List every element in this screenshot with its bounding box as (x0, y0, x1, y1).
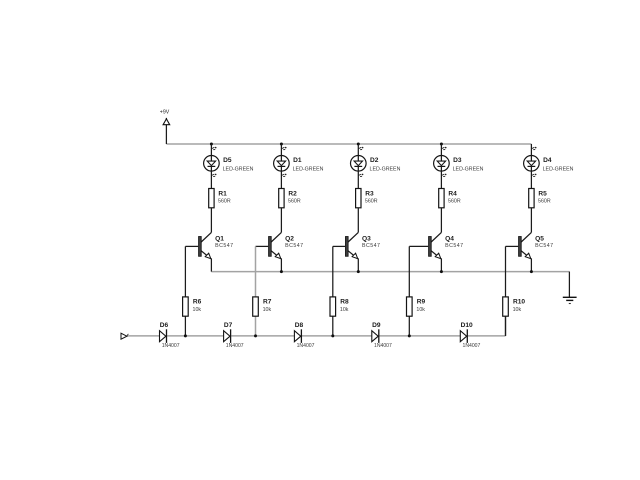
transistor Q1 (199, 232, 212, 258)
svg-text:560R: 560R (538, 198, 551, 204)
pin mark LED D2 top (359, 147, 364, 150)
LED D4 (524, 156, 540, 172)
svg-text:LED-GREEN: LED-GREEN (453, 166, 484, 172)
diode D7 (224, 329, 231, 343)
svg-text:+9V: +9V (160, 110, 170, 116)
svg-text:D3: D3 (453, 157, 462, 164)
diode D10 (460, 329, 467, 343)
wire resistor R2 to transistor Q2 collector (280, 208, 282, 233)
pin mark LED D1 bottom (282, 174, 287, 177)
input terminal (121, 333, 128, 339)
pin mark LED D3 top (442, 147, 447, 150)
svg-text:BC547: BC547 (215, 243, 233, 249)
wire base column R10 (505, 246, 507, 336)
node diode row junction 3 (331, 334, 334, 337)
node diode row junction 4 (408, 334, 411, 337)
wire LED D5 anode (210, 144, 212, 161)
svg-text:D1: D1 (293, 157, 302, 164)
wire base column R6 (184, 246, 186, 336)
node diode row junction 1 (184, 334, 187, 337)
wire LED D4 anode (530, 144, 532, 161)
svg-text:1N4007: 1N4007 (297, 343, 315, 349)
pin mark LED D5 bottom (212, 174, 217, 177)
svg-text:10k: 10k (193, 307, 202, 313)
svg-text:LED-GREEN: LED-GREEN (543, 166, 574, 172)
power +9V (163, 118, 170, 144)
svg-text:560R: 560R (218, 198, 231, 204)
svg-text:BC547: BC547 (445, 243, 463, 249)
pin mark LED D3 bottom (442, 174, 447, 177)
svg-text:R1: R1 (218, 191, 227, 198)
resistor R3 (356, 189, 361, 208)
resistor R5 (529, 189, 534, 208)
node emitter rail junction 3 (357, 270, 360, 273)
resistor R4 (439, 189, 444, 208)
svg-text:560R: 560R (288, 198, 301, 204)
wire LED D5 cathode to resistor R1 (210, 166, 212, 188)
svg-text:10k: 10k (416, 307, 425, 313)
svg-text:D6: D6 (160, 322, 169, 329)
wire diode row segment 5 (379, 335, 460, 337)
transistor Q3 (345, 232, 358, 258)
pin mark LED D4 bottom (532, 174, 537, 177)
wire resistor R4 to transistor Q4 collector (440, 208, 442, 233)
wire resistor R5 to transistor Q5 collector (530, 208, 532, 233)
wire diode row segment 6 (468, 335, 506, 337)
wire resistor R1 to transistor Q1 collector (210, 208, 212, 233)
svg-text:1N4007: 1N4007 (226, 343, 244, 349)
pin mark LED D2 bottom (359, 174, 364, 177)
node top rail junction 2 (280, 143, 283, 146)
wire LED D3 anode (440, 144, 442, 161)
wire resistor R3 to transistor Q3 collector (357, 208, 359, 233)
ground (563, 272, 577, 304)
node emitter rail junction 2 (280, 270, 283, 273)
pin mark LED D5 top (212, 147, 217, 150)
wire LED D2 cathode to resistor R3 (357, 166, 359, 188)
wire LED D4 cathode to resistor R5 (530, 166, 532, 188)
LED D3 (434, 156, 450, 172)
svg-text:R8: R8 (340, 299, 349, 306)
transistor Q2 (269, 232, 282, 258)
wire top power rail (166, 143, 531, 145)
wire base column R9 (408, 246, 410, 336)
wire LED D1 cathode to resistor R2 (280, 166, 282, 188)
wire base column R7 (255, 246, 257, 336)
wire LED D1 anode (280, 144, 282, 161)
wire diode row segment 4 (302, 335, 372, 337)
transistor Q4 (429, 232, 442, 258)
LED D1 (274, 156, 290, 172)
svg-text:560R: 560R (365, 198, 378, 204)
svg-text:R5: R5 (538, 191, 547, 198)
svg-text:Q4: Q4 (445, 236, 454, 243)
resistor R2 (279, 189, 284, 208)
node top rail junction 4 (440, 143, 443, 146)
svg-text:Q3: Q3 (362, 236, 371, 243)
svg-text:R9: R9 (417, 299, 426, 306)
wire LED D3 cathode to resistor R4 (440, 166, 442, 188)
resistor R10 (503, 297, 509, 316)
resistor R6 (183, 297, 189, 316)
pin mark LED D4 top (532, 147, 537, 150)
LED D2 (351, 156, 367, 172)
wire transistor Q5 base (506, 245, 519, 247)
LED D5 (204, 156, 220, 172)
resistor R1 (209, 189, 214, 208)
svg-text:10k: 10k (513, 307, 522, 313)
svg-text:D4: D4 (543, 157, 552, 164)
svg-text:1N4007: 1N4007 (162, 343, 180, 349)
wire transistor Q4 base (409, 245, 428, 247)
svg-text:Q2: Q2 (285, 236, 294, 243)
node emitter rail junction 4 (440, 270, 443, 273)
diode D8 (294, 329, 301, 343)
wire transistor Q1 emitter (210, 258, 212, 271)
svg-text:BC547: BC547 (362, 243, 380, 249)
wire transistor Q2 base (256, 245, 269, 247)
wire transistor Q2 emitter (280, 258, 282, 271)
svg-text:D9: D9 (372, 322, 381, 329)
wire emitter rail to ground (211, 271, 569, 273)
svg-text:1N4007: 1N4007 (374, 343, 392, 349)
svg-text:D7: D7 (224, 322, 233, 329)
wire transistor Q4 emitter (440, 258, 442, 271)
svg-text:LED-GREEN: LED-GREEN (293, 166, 324, 172)
wire transistor Q1 base (185, 245, 198, 247)
wire base column R8 (332, 246, 334, 336)
svg-text:D8: D8 (295, 322, 304, 329)
wire diode row segment 2 (167, 335, 224, 337)
node emitter rail junction 5 (530, 270, 533, 273)
svg-text:10k: 10k (340, 307, 349, 313)
wire transistor Q3 base (333, 245, 345, 247)
node top rail junction 3 (357, 143, 360, 146)
svg-text:BC547: BC547 (535, 243, 553, 249)
svg-text:10k: 10k (263, 307, 272, 313)
svg-text:R10: R10 (513, 299, 525, 306)
transistor Q5 (519, 232, 532, 258)
wire transistor Q3 emitter (357, 258, 359, 271)
svg-text:LED-GREEN: LED-GREEN (370, 166, 401, 172)
wire transistor Q5 emitter (530, 258, 532, 271)
wire LED D2 anode (357, 144, 359, 161)
svg-text:560R: 560R (448, 198, 461, 204)
diode D9 (372, 329, 379, 343)
svg-text:R4: R4 (448, 191, 457, 198)
svg-text:R3: R3 (365, 191, 374, 198)
svg-text:R7: R7 (263, 299, 272, 306)
resistor R9 (407, 297, 413, 316)
wire diode row segment 3 (231, 335, 294, 337)
pin mark LED D1 top (282, 147, 287, 150)
svg-text:D2: D2 (370, 157, 379, 164)
svg-text:R6: R6 (193, 299, 202, 306)
node diode row junction 2 (254, 334, 257, 337)
resistor R8 (330, 297, 336, 316)
wire diode row segment 1 (127, 335, 160, 337)
svg-text:D5: D5 (223, 157, 232, 164)
svg-text:LED-GREEN: LED-GREEN (223, 166, 254, 172)
svg-text:Q5: Q5 (535, 236, 544, 243)
svg-text:BC547: BC547 (285, 243, 303, 249)
diode D6 (160, 329, 167, 343)
svg-text:Q1: Q1 (215, 236, 224, 243)
wire diode row to resistor R10 (505, 316, 507, 336)
svg-text:R2: R2 (288, 191, 297, 198)
node top rail junction 1 (210, 143, 213, 146)
resistor R7 (253, 297, 259, 316)
svg-text:D10: D10 (461, 322, 473, 329)
svg-text:1N4007: 1N4007 (463, 343, 481, 349)
